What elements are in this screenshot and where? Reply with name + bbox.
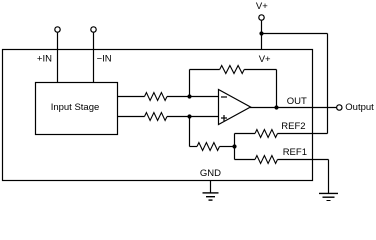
svg-text:V+: V+ [259, 54, 271, 65]
wire REF1 down to ground [328, 160, 330, 194]
node plus input [187, 114, 191, 118]
svg-text:GND: GND [200, 168, 221, 179]
svg-text:OUT: OUT [287, 96, 307, 107]
wire feedback top left [190, 69, 220, 71]
wire feedback vertical up [189, 70, 191, 97]
resistor REF1 [255, 156, 278, 164]
wire +IN to input stage [57, 33, 59, 83]
input stage block [36, 83, 118, 135]
svg-text:Input Stage: Input Stage [51, 102, 100, 113]
wire REF1 left [235, 159, 256, 161]
wire V+ vertical down to REF2 [327, 34, 329, 134]
resistor REF2 [255, 130, 278, 138]
wire input stage to R2 [118, 116, 145, 118]
svg-text:Output: Output [345, 102, 374, 113]
wire REF1 right [278, 159, 329, 161]
ground center [203, 192, 219, 194]
resistor R1 [145, 93, 168, 101]
node output junction [274, 105, 278, 109]
outer IC boundary box [3, 50, 313, 181]
wire R1 to op-amp minus [167, 96, 219, 98]
wire REF vertical [234, 134, 236, 160]
wire output row [250, 107, 336, 109]
op-amp minus pin mark [221, 96, 227, 98]
svg-text:−IN: −IN [97, 54, 112, 65]
wire feedback down to output [276, 70, 278, 108]
wire -IN to input stage [93, 33, 95, 83]
terminal Output [337, 105, 342, 110]
node minus input [187, 94, 191, 98]
wire V+ stem into box [261, 21, 263, 50]
ground right [319, 192, 338, 194]
wire plus node down to RG [189, 117, 191, 147]
svg-text:REF1: REF1 [283, 147, 307, 158]
wire RG to REF junction [220, 146, 235, 148]
terminal +IN [55, 27, 60, 32]
node V+ junction [259, 31, 263, 35]
wire R2 to op-amp plus [167, 116, 219, 118]
wire REF2 right to V+ line [278, 133, 328, 135]
resistor RG [197, 143, 220, 151]
wire feedback top right [244, 69, 276, 71]
terminal -IN [91, 27, 96, 32]
svg-text:REF2: REF2 [281, 121, 305, 132]
svg-text:V+: V+ [256, 1, 268, 12]
op-amp A1 [219, 90, 251, 125]
wire RG left [190, 146, 198, 148]
wire GND stem [210, 181, 212, 193]
wire V+ horizontal to right [262, 33, 328, 35]
node REF junction [232, 144, 236, 148]
op-amp plus pin mark [221, 117, 227, 119]
resistor R2 [145, 113, 168, 121]
terminal V+ [259, 15, 264, 20]
svg-text:+IN: +IN [37, 54, 52, 65]
wire input stage to R1 [118, 96, 145, 98]
wire REF2 left [235, 133, 256, 135]
resistor feedback [220, 66, 245, 74]
